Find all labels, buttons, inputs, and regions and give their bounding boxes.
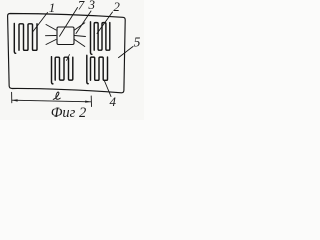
- svg-text:7: 7: [78, 0, 85, 12]
- svg-text:5: 5: [134, 35, 141, 50]
- svg-text:Фиг 2: Фиг 2: [51, 105, 86, 120]
- svg-text:3: 3: [88, 0, 96, 12]
- svg-text:4: 4: [110, 94, 117, 109]
- svg-text:1: 1: [49, 0, 56, 15]
- svg-text:2: 2: [113, 0, 120, 14]
